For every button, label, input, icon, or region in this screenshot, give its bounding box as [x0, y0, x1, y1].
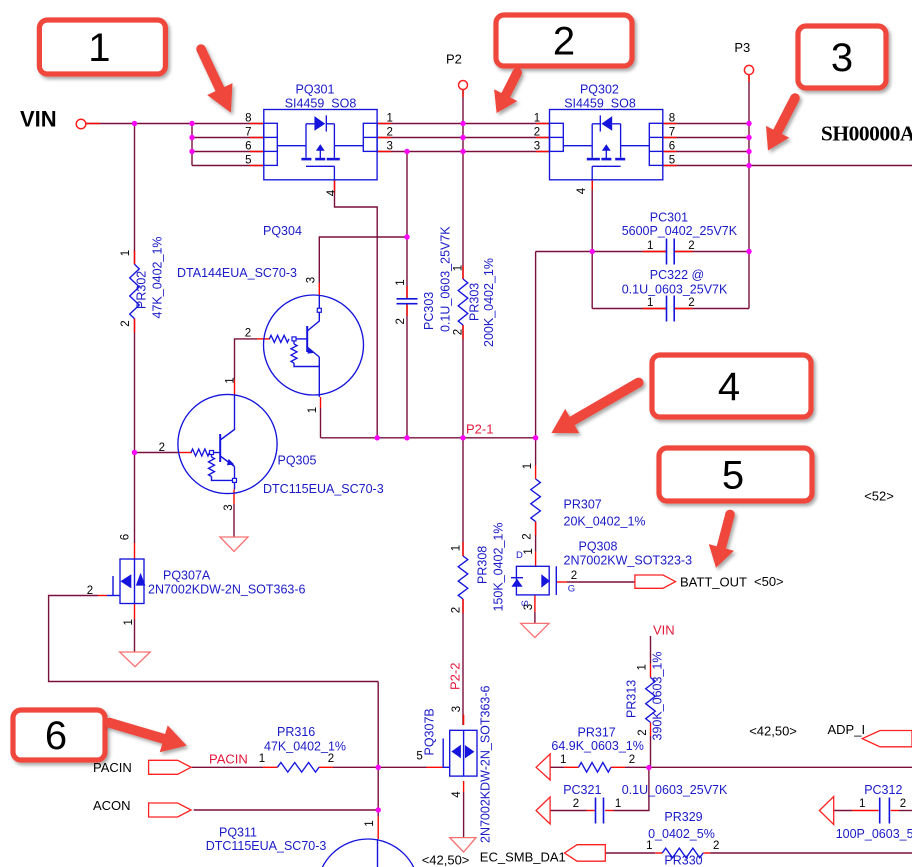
svg-text:PQ302: PQ302 [580, 83, 619, 97]
svg-text:PR317: PR317 [578, 726, 616, 740]
svg-text:1: 1 [859, 798, 865, 810]
svg-text:PR308: PR308 [476, 546, 490, 584]
svg-text:ADP_I: ADP_I [828, 722, 866, 737]
svg-text:2: 2 [573, 798, 579, 810]
svg-text:2N7002KW_SOT323-3: 2N7002KW_SOT323-3 [564, 554, 693, 568]
svg-text:1: 1 [534, 112, 540, 124]
svg-text:SH00000AAV: SH00000AAV [821, 122, 912, 146]
svg-text:G: G [568, 584, 575, 595]
svg-text:0.1U_0603_25V7K: 0.1U_0603_25V7K [622, 283, 728, 297]
svg-text:1: 1 [560, 754, 566, 766]
svg-text:2: 2 [245, 328, 251, 340]
svg-text:2: 2 [87, 585, 93, 597]
svg-text:2: 2 [900, 798, 906, 810]
svg-text:2: 2 [386, 126, 392, 138]
svg-text:SI4459_SO8: SI4459_SO8 [285, 97, 357, 111]
svg-text:PR307: PR307 [564, 498, 602, 512]
svg-text:0_0402_5%: 0_0402_5% [648, 827, 715, 841]
svg-text:2: 2 [120, 320, 132, 326]
svg-text:VIN: VIN [653, 623, 675, 638]
svg-text:150K_0402_1%: 150K_0402_1% [492, 523, 506, 612]
svg-text:2: 2 [159, 442, 165, 454]
svg-text:1: 1 [647, 240, 653, 252]
svg-text:2: 2 [571, 570, 577, 582]
svg-text:2: 2 [328, 753, 334, 765]
svg-text:PQ311: PQ311 [219, 826, 257, 840]
svg-text:PQ308: PQ308 [579, 540, 618, 554]
svg-text:5600P_0402_25V7K: 5600P_0402_25V7K [622, 224, 738, 238]
svg-text:3: 3 [223, 504, 235, 510]
svg-text:P2-1: P2-1 [466, 422, 493, 437]
svg-text:1: 1 [123, 619, 135, 625]
svg-text:D: D [516, 550, 523, 561]
svg-text:BATT_OUT: BATT_OUT [680, 575, 747, 590]
svg-text:2: 2 [713, 840, 719, 852]
svg-text:2N7002KDW-2N_SOT363-6: 2N7002KDW-2N_SOT363-6 [148, 583, 306, 597]
svg-text:ACON: ACON [93, 798, 131, 813]
svg-text:7: 7 [245, 126, 251, 138]
svg-text:2: 2 [521, 533, 533, 539]
svg-text:PC322 @: PC322 @ [650, 268, 704, 282]
svg-text:4: 4 [451, 791, 463, 798]
svg-text:2: 2 [452, 329, 464, 335]
svg-text:S: S [520, 600, 531, 606]
svg-text:5: 5 [722, 454, 744, 498]
svg-text:3: 3 [306, 277, 318, 283]
svg-text:P2: P2 [446, 52, 462, 67]
svg-text:DTC115EUA_SC70-3: DTC115EUA_SC70-3 [206, 839, 327, 853]
svg-text:5: 5 [245, 154, 251, 166]
svg-text:3: 3 [831, 36, 853, 80]
svg-text:3: 3 [386, 140, 392, 152]
svg-text:200K_0402_1%: 200K_0402_1% [482, 258, 496, 347]
svg-text:1: 1 [364, 820, 376, 826]
svg-text:47K_0402_1%: 47K_0402_1% [264, 740, 346, 754]
svg-text:SI4459_SO8: SI4459_SO8 [564, 97, 636, 111]
svg-text:1: 1 [615, 798, 621, 810]
svg-text:1: 1 [451, 545, 463, 551]
svg-text:EC_SMB_DA1: EC_SMB_DA1 [480, 850, 566, 865]
svg-text:0.1U_0603_25V7K: 0.1U_0603_25V7K [622, 783, 728, 797]
svg-text:1: 1 [307, 407, 319, 413]
svg-text:20K_0402_1%: 20K_0402_1% [564, 515, 646, 529]
svg-text:1: 1 [646, 840, 652, 852]
svg-text:1: 1 [259, 753, 265, 765]
svg-text:DTC115EUA_SC70-3: DTC115EUA_SC70-3 [263, 482, 384, 496]
svg-text:PC312: PC312 [864, 783, 902, 797]
svg-text:3: 3 [451, 706, 463, 712]
svg-text:4: 4 [718, 365, 740, 409]
svg-text:P2-2: P2-2 [448, 663, 463, 690]
svg-text:<50>: <50> [754, 574, 784, 589]
svg-text:PQ304: PQ304 [263, 224, 302, 238]
svg-text:PR316: PR316 [277, 725, 315, 739]
svg-text:1: 1 [636, 664, 648, 670]
svg-text:1: 1 [452, 265, 464, 271]
svg-text:PQ307B: PQ307B [423, 708, 437, 755]
svg-text:1: 1 [225, 377, 237, 383]
svg-text:5: 5 [669, 154, 675, 166]
svg-text:<52>: <52> [864, 489, 894, 504]
svg-text:8: 8 [669, 112, 675, 124]
svg-text:6: 6 [119, 534, 131, 540]
svg-text:2: 2 [688, 240, 694, 252]
svg-text:<42,50>: <42,50> [749, 724, 797, 739]
svg-text:1: 1 [88, 26, 110, 70]
svg-text:6: 6 [245, 140, 251, 152]
svg-text:PR302: PR302 [135, 271, 149, 309]
svg-text:0.1U_0603_25V7K: 0.1U_0603_25V7K [439, 226, 453, 332]
svg-text:PC303: PC303 [422, 292, 436, 330]
svg-text:6: 6 [669, 140, 675, 152]
svg-text:PQ301: PQ301 [296, 83, 335, 97]
svg-text:VIN: VIN [20, 107, 57, 132]
svg-text:PR329: PR329 [664, 810, 702, 824]
svg-text:DTA144EUA_SC70-3: DTA144EUA_SC70-3 [177, 266, 297, 280]
svg-text:P3: P3 [734, 40, 750, 55]
svg-text:2N7002KDW-2N_SOT363-6: 2N7002KDW-2N_SOT363-6 [479, 685, 493, 843]
svg-text:PR330: PR330 [664, 854, 702, 867]
svg-text:1: 1 [647, 297, 653, 309]
svg-text:4: 4 [576, 187, 588, 194]
svg-text:PQ307A: PQ307A [163, 569, 211, 583]
svg-text:6: 6 [45, 714, 67, 758]
svg-text:PQ305: PQ305 [278, 454, 317, 468]
svg-text:2: 2 [451, 607, 463, 613]
svg-text:47K_0402_1%: 47K_0402_1% [151, 236, 165, 318]
svg-text:8: 8 [245, 112, 251, 124]
svg-text:100P_0603_50: 100P_0603_50 [836, 827, 912, 841]
svg-text:2: 2 [637, 729, 649, 735]
svg-text:PC301: PC301 [650, 211, 688, 225]
svg-text:64.9K_0603_1%: 64.9K_0603_1% [551, 739, 643, 753]
svg-text:3: 3 [534, 140, 540, 152]
svg-text:1: 1 [395, 279, 407, 285]
svg-text:2: 2 [395, 318, 407, 324]
svg-text:1: 1 [120, 250, 132, 256]
svg-text:2: 2 [688, 297, 694, 309]
svg-text:1: 1 [386, 112, 392, 124]
svg-text:4: 4 [326, 189, 338, 196]
svg-text:390K_0603_1%: 390K_0603_1% [651, 652, 665, 741]
svg-text:7: 7 [669, 126, 675, 138]
svg-text:2: 2 [553, 20, 575, 64]
svg-text:2: 2 [534, 126, 540, 138]
svg-text:PR303: PR303 [468, 283, 482, 321]
svg-text:2: 2 [629, 754, 635, 766]
svg-text:PACIN: PACIN [209, 752, 248, 767]
svg-text:<42,50>: <42,50> [422, 853, 470, 867]
svg-text:PR313: PR313 [625, 680, 639, 718]
svg-text:PC321: PC321 [563, 783, 601, 797]
svg-text:1: 1 [522, 463, 534, 469]
svg-text:1: 1 [523, 548, 535, 554]
